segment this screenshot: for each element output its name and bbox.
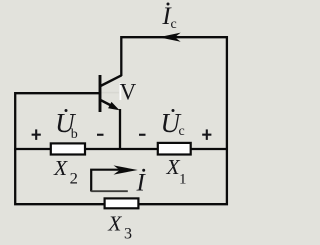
component X3 box (105, 198, 139, 208)
transistor V: collector lead (100, 75, 122, 86)
label X1 (166, 155, 187, 188)
svg-text:b: b (71, 127, 78, 142)
label Ic (161, 3, 176, 33)
faint artifact line right of base (101, 92, 119, 94)
svg-text:X: X (107, 212, 122, 236)
polarity minus left (97, 134, 104, 136)
svg-text:2: 2 (70, 170, 78, 187)
transistor V: emitter lead (100, 100, 113, 107)
component X2 box (51, 143, 85, 154)
wire main loop: collector riser, top, right, bottom, left, base lead (15, 37, 227, 204)
wire emitter drop (119, 109, 121, 150)
arrow I hook: gray bottom line (91, 190, 128, 192)
wire middle rail (14, 148, 227, 150)
transistor V: emitter arrowhead (108, 102, 119, 110)
svg-text:X: X (53, 156, 68, 180)
svg-text:c: c (179, 124, 185, 139)
arrow I hook: vertical + top with arrowhead (91, 170, 122, 192)
polarity minus right (139, 134, 146, 136)
label X3 (107, 212, 132, 243)
svg-text:1: 1 (179, 172, 187, 188)
label Ub (55, 108, 78, 142)
svg-text:V: V (120, 80, 137, 105)
label X2 (53, 156, 78, 187)
transistor V: base bar (99, 75, 102, 112)
svg-text:c: c (171, 17, 177, 32)
label I (middle current) (136, 169, 147, 197)
svg-text:3: 3 (124, 226, 132, 243)
arrow Ic on top wire (159, 33, 181, 42)
polarity plus left (32, 129, 41, 140)
faint white strip left of V (120, 83, 122, 100)
component X1 box (158, 143, 191, 155)
label Uc (161, 108, 185, 139)
polarity plus right (202, 129, 211, 140)
